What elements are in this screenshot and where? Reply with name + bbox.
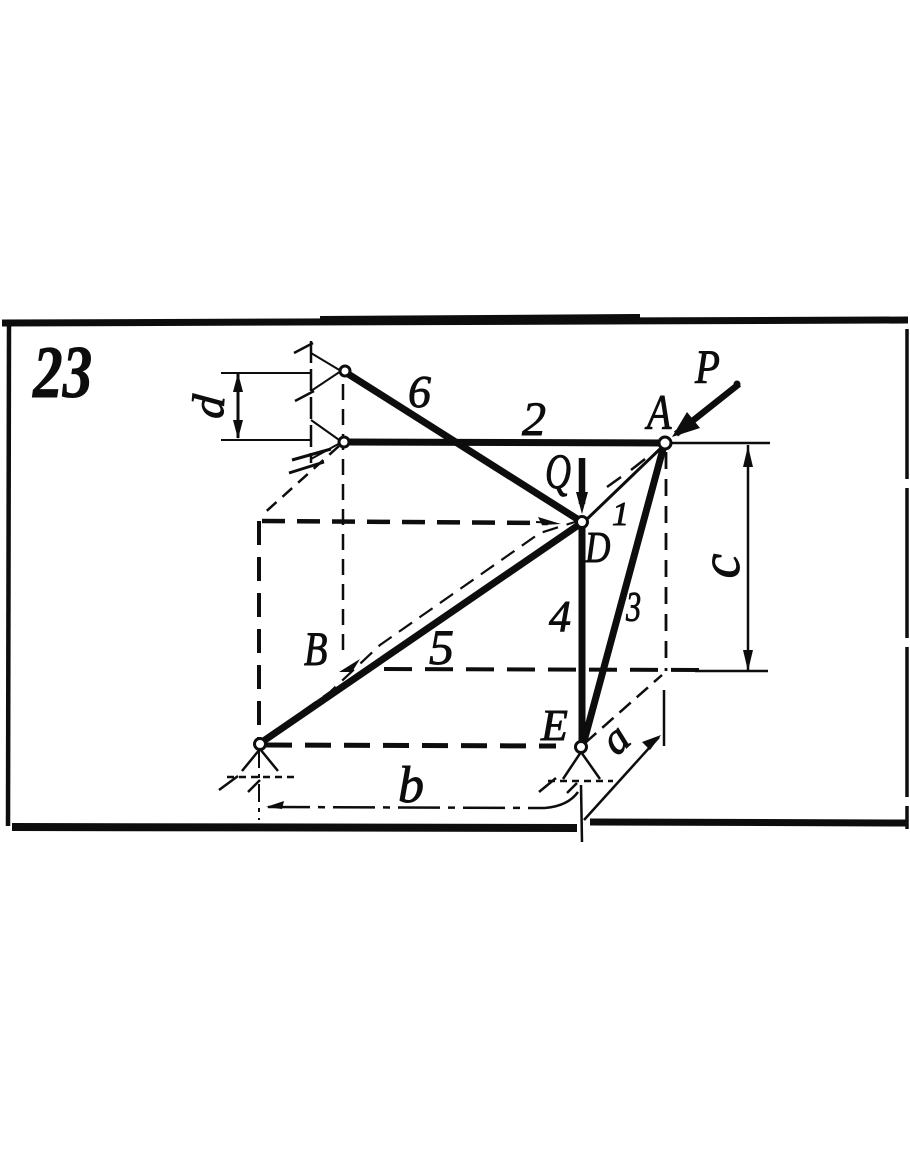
c dimension line xyxy=(747,445,750,670)
node E xyxy=(576,742,587,753)
extension line right of A xyxy=(671,442,770,445)
arrowhead at bottom of construction line near corner xyxy=(339,659,360,672)
bar 3 xyxy=(583,449,663,745)
d dimension extension lines xyxy=(221,372,311,374)
force Q line xyxy=(579,458,586,504)
svg-text:A: A xyxy=(644,385,671,440)
node A xyxy=(659,437,671,449)
force P arrowhead xyxy=(672,412,700,437)
frame top border xyxy=(2,320,908,323)
b extension line below node B xyxy=(258,750,260,820)
bar 2 xyxy=(346,442,664,443)
svg-text:2: 2 xyxy=(522,393,546,446)
svg-text:b: b xyxy=(398,757,424,814)
back bottom dashed edge xyxy=(384,669,700,670)
node D xyxy=(577,517,588,528)
svg-text:6: 6 xyxy=(408,366,431,417)
d dimension line with arrows xyxy=(237,374,240,438)
vertical extension below back corner xyxy=(663,690,666,746)
b extension line below node E xyxy=(581,785,582,842)
wall line (dashed vertical) for left supports xyxy=(310,341,313,463)
frame right border xyxy=(905,329,909,829)
bar 6 xyxy=(345,372,582,522)
node upper pin xyxy=(340,366,350,376)
wall hatch ticks xyxy=(294,343,313,353)
bar 5 xyxy=(262,524,580,742)
svg-text:E: E xyxy=(540,701,568,750)
force Q arrowhead xyxy=(576,492,588,514)
svg-text:23: 23 xyxy=(32,332,92,414)
vertical dashed construction line below upper node xyxy=(342,384,345,658)
bottom front dashed edge xyxy=(266,745,556,746)
horizontal dashed edge at mid height xyxy=(262,521,548,523)
dashed edge from lower pin to box corner xyxy=(261,446,339,516)
frame left border xyxy=(8,324,9,826)
svg-text:3: 3 xyxy=(625,583,641,630)
svg-text:P: P xyxy=(694,340,720,394)
bar 1 (A to D) xyxy=(585,448,661,521)
support at node B xyxy=(242,749,278,771)
c bottom extension line xyxy=(695,670,768,673)
support triangle at upper pin xyxy=(311,353,341,391)
node lower pin xyxy=(339,437,349,447)
bar 4 xyxy=(579,525,586,744)
svg-text:Q: Q xyxy=(545,444,571,499)
thin dashed line parallel to bar 5 xyxy=(262,521,578,740)
svg-text:1: 1 xyxy=(612,496,629,533)
node B xyxy=(255,739,266,750)
svg-text:c: c xyxy=(690,553,752,578)
bar 1 dashed companion (A to D) xyxy=(607,459,645,487)
left vertical dashed edge xyxy=(257,521,261,741)
frame bottom border xyxy=(12,827,577,828)
thin arrow into D on dashed edge xyxy=(536,522,554,523)
force P line xyxy=(676,384,739,434)
svg-text:5: 5 xyxy=(429,619,454,675)
b dimension line xyxy=(268,807,545,808)
support at node E xyxy=(563,752,600,779)
support triangle at lower pin xyxy=(311,420,342,459)
svg-text:B: B xyxy=(304,623,327,676)
a dimension line xyxy=(584,737,659,820)
dashed edge from E to back corner xyxy=(585,675,662,743)
dash-dot projection line below A xyxy=(665,452,668,671)
svg-text:4: 4 xyxy=(549,592,571,641)
svg-text:D: D xyxy=(584,522,611,572)
